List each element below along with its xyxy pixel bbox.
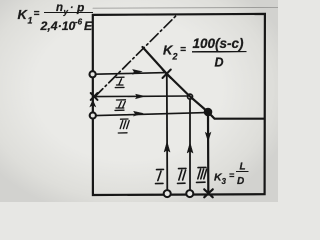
label III (roman numeral, line III) [118,119,129,133]
wire: vertical line II [189,99,191,194]
label II (roman numeral, line II) [115,100,126,111]
wire: vertical line III [207,112,210,194]
arrow right on line III [134,111,144,116]
svg-text:3: 3 [222,177,227,186]
node: filled dot junction of line III / vertical III [204,108,212,116]
fraction bar of K3 [236,170,249,172]
arrow right on line II [136,94,146,99]
node: X mark on K1 axis (case II) [91,93,98,100]
arrow right on line I [133,69,143,74]
svg-text:=: = [34,9,40,20]
node: open circle on K1 axis (case I) [90,71,96,77]
label I (bottom, vertical I) [156,169,164,183]
label II (bottom, vertical II) [178,168,187,183]
wire: horizontal line III [96,113,207,116]
svg-text:2,4·10: 2,4·10 [40,19,76,33]
node: X junction of line I with solid diagonal [163,70,171,79]
node: open circle on K1 axis (case III) [90,112,96,118]
svg-text:=: = [180,45,186,56]
formula K2 = 100(s-c)/D [163,36,244,70]
node: open circle bottom of vertical I [164,190,171,197]
fraction bar of K1 [44,11,93,13]
solid diagonal response line [143,47,209,112]
wire: vertical line I [166,74,169,194]
wire: horizontal line I [95,73,166,75]
svg-text:2: 2 [172,52,178,62]
node: small open circle junction of line II with diagonal [188,94,193,99]
arrow up on vertical I [164,142,170,152]
label I (roman numeral, line I) [115,77,124,87]
horizontal line from filled node to right edge [208,112,264,119]
arrow up on vertical II [187,143,193,153]
svg-text:D: D [215,56,224,70]
node: X mark bottom of vertical III [204,189,213,197]
node: open circle bottom of vertical II [186,190,193,197]
svg-text:-6: -6 [75,18,83,27]
formula K3 = L/D [214,162,246,188]
arrow down on vertical III [205,133,210,142]
formula K1 = ny*p / (2,4*10^-6 E) [18,1,94,34]
svg-text:=: = [229,171,235,181]
svg-text:E: E [84,19,93,33]
fraction bar of K2 [192,50,247,53]
dash-dot construction diagonal line [95,15,177,97]
svg-text:100(s-c): 100(s-c) [193,36,245,51]
frame border of nomogram [93,14,265,195]
wire: horizontal line II [96,95,189,98]
faint ruled hairline above figure [93,6,278,9]
label III (bottom, vertical III) [197,167,207,182]
svg-text:D: D [237,176,244,187]
svg-text:1: 1 [28,16,33,26]
arrow up on K1 axis [90,100,95,106]
